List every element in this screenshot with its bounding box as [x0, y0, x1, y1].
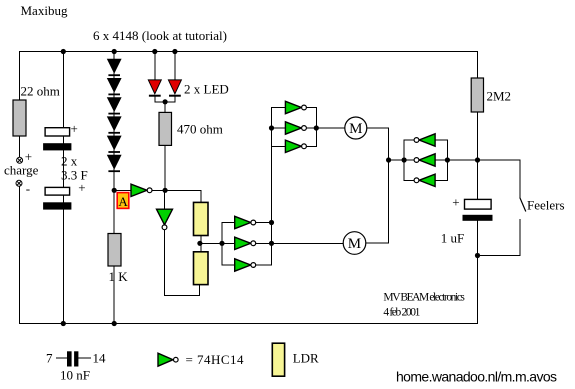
wire group3 right bus [446, 140, 448, 180]
node right rail mid [475, 157, 480, 162]
svg-text:1 uF: 1 uF [441, 231, 464, 246]
capacitor C1 3.3F plate+ [45, 128, 70, 136]
wire node A to inverter U1A input [114, 189, 131, 191]
wire group1 input stub3 [272, 145, 286, 147]
terminal charge - [16, 180, 22, 186]
wire cap2 to bottom rail [62, 210, 64, 324]
svg-text:home.wanadoo.nl/m.m.avos: home.wanadoo.nl/m.m.avos [396, 369, 557, 385]
wire cap branch from top rail [62, 52, 64, 128]
motor M1 [345, 117, 367, 139]
LDR2 [194, 252, 209, 285]
node top rail led1 [152, 49, 157, 54]
wire LDR2 bottom riser [199, 285, 201, 296]
terminal charge + [17, 157, 23, 163]
svg-text:2 x LED: 2 x LED [184, 82, 229, 97]
node A junction [112, 188, 117, 193]
diode D2 [108, 79, 121, 96]
wire group2 to motor2 [272, 242, 344, 244]
diode D3 [108, 98, 121, 115]
capacitor C3 1uF plate+ [465, 199, 492, 209]
node LDR mid [197, 241, 202, 246]
capacitor 10nF legend plate2 [74, 351, 78, 366]
inverter group2 row2 [235, 237, 256, 249]
resistor 470 ohm [159, 112, 172, 145]
diode D6 [108, 155, 121, 172]
wire 1K to bottom rail [113, 266, 115, 324]
wire right rail lower [477, 112, 479, 199]
wire top rail [20, 51, 478, 53]
wire LED2 cathode down [174, 97, 176, 102]
wire down inverter output [164, 230, 166, 296]
svg-text:10 nF: 10 nF [60, 368, 90, 383]
node led join [163, 99, 168, 104]
svg-text:-: - [26, 181, 30, 196]
node bottom rail 1K [112, 321, 117, 326]
wire group1 input stub2 [272, 127, 286, 129]
capacitor 10nF legend plate1 [67, 351, 72, 366]
inverter legend [158, 353, 178, 366]
wire between cap2 plates [62, 195, 64, 202]
node group1 out2 [314, 125, 319, 130]
capacitor C2 3.3F plate+ [45, 187, 70, 195]
wire group1 input stub1 [272, 107, 286, 109]
node group2 out1 [269, 220, 274, 225]
wire feelers drop [519, 160, 521, 197]
inverter group1 row1 [285, 101, 306, 113]
motor M2 [343, 232, 366, 255]
wire feelers return [478, 255, 520, 257]
text LDR legend [272, 343, 284, 376]
wire group3 output stub3 [404, 179, 414, 181]
wire group1 output stub1 [306, 107, 316, 109]
wire LED node to 470 ohm [164, 102, 166, 113]
diode D1 [108, 59, 121, 76]
wire long vertical link [271, 108, 273, 266]
wire common node horizontal [389, 159, 520, 161]
svg-text:14: 14 [93, 351, 107, 366]
capacitor C1 plate- [43, 143, 71, 150]
wire cap1 to cap2 [62, 150, 64, 187]
wire LED join horizontal [155, 101, 175, 103]
wire node B to LDR1 top [165, 189, 201, 191]
inverter U1B down-pointing [157, 209, 173, 230]
wire motor2 right [366, 242, 389, 244]
node cap3 bottom [475, 253, 480, 258]
wire between cap1 plates [62, 136, 64, 143]
svg-text:charge: charge [4, 163, 39, 178]
wire LED2 anode [174, 52, 176, 81]
svg-text:M: M [349, 121, 362, 137]
wire bottom link to LDR2 [165, 295, 200, 297]
node top rail led2 [172, 49, 177, 54]
wire group1 to motor1 [316, 127, 345, 129]
svg-text:4 feb 2001: 4 feb 2001 [383, 307, 420, 319]
diode D4 [108, 117, 121, 134]
wire group2 input stub3 [222, 264, 235, 266]
LDR1 [194, 202, 209, 235]
svg-text:7: 7 [46, 351, 53, 366]
wire group1 output stub2 [306, 127, 316, 129]
wire group1 right bus [315, 108, 317, 147]
wire group2 output stub1 [256, 222, 271, 224]
capacitor C2 plate- [43, 202, 71, 209]
LED2 [168, 80, 181, 97]
inverter group3 row1 [414, 134, 435, 146]
wire motors common vertical [388, 128, 390, 243]
switch feelers arm [520, 198, 526, 212]
wire right rail below cap [477, 220, 479, 324]
node motors common [386, 157, 391, 162]
svg-text:+: + [71, 121, 78, 136]
wire U1A bubble to node B [153, 189, 166, 191]
wire group2 output stub2 [256, 242, 271, 244]
svg-text:1 K: 1 K [109, 269, 129, 284]
wire group2 input stub1 [222, 222, 235, 224]
wire motor1 right [367, 127, 389, 129]
wire group3 left bus [403, 140, 405, 180]
wire LDR node to group2 bus [201, 242, 222, 244]
node bottom rail cap [61, 321, 66, 326]
resistor 2M2 [471, 78, 483, 112]
diode D5 [108, 136, 121, 153]
wire diode chain branch [113, 52, 115, 191]
wire right rail upper [477, 52, 479, 79]
wire node B to down inverter input [164, 190, 166, 209]
inverter group3 row3 [414, 174, 435, 186]
node B junction [163, 188, 168, 193]
wire 10nF lead left [57, 357, 68, 359]
inverter group1 row2 [285, 122, 306, 134]
svg-text:+: + [78, 180, 85, 195]
svg-text:2M2: 2M2 [487, 89, 512, 104]
inverter group3 row2 [414, 154, 435, 166]
node top rail cap [61, 49, 66, 54]
wire LDR1 top drop [200, 190, 202, 202]
op-amp U1A inverter [131, 184, 152, 196]
svg-text:470 ohm: 470 ohm [177, 122, 223, 137]
node group1 in2 [269, 125, 274, 130]
wire 10nF lead right [78, 357, 90, 359]
LED1 [148, 80, 161, 97]
wire group2 output stub3 [256, 264, 271, 266]
wire feelers lower contact [519, 219, 521, 255]
wire LED1 cathode down [154, 97, 156, 102]
wire group3 input stub1 [435, 139, 447, 141]
wire node A to 1K [113, 190, 115, 233]
capacitor C3 plate- [463, 215, 493, 221]
inverter group2 row3 [235, 259, 256, 271]
svg-text:MV BEAM electronics: MV BEAM electronics [383, 292, 465, 304]
svg-text:+: + [452, 194, 459, 209]
svg-text:2 x: 2 x [61, 154, 78, 169]
node A label box [117, 193, 129, 209]
node group3 right [445, 157, 450, 162]
node group3 left [402, 157, 407, 162]
node group2 out2 [269, 241, 274, 246]
inverter group2 row1 [235, 216, 256, 228]
wire group2 input stub2 [222, 242, 235, 244]
wire LDR1 to LDR2 [200, 236, 202, 252]
svg-text:6 x 4148 (look at tutorial): 6 x 4148 (look at tutorial) [93, 28, 227, 43]
svg-text:Feelers: Feelers [527, 198, 565, 213]
wire group2 left bus [221, 223, 223, 266]
wire left rail upper [19, 52, 21, 101]
resistor 22 ohm [13, 100, 26, 136]
svg-text:A: A [118, 194, 128, 209]
wire group1 output stub3 [306, 145, 316, 147]
inverter group1 row3 [285, 140, 306, 152]
wire 470 ohm to node B [164, 145, 166, 190]
wire LED1 anode [154, 52, 156, 81]
svg-text:LDR: LDR [293, 351, 319, 366]
wire group3 input stub3 [435, 179, 447, 181]
node group2 bus feed [219, 241, 224, 246]
resistor 1K [108, 234, 121, 267]
wire group3 output stub1 [404, 139, 414, 141]
svg-text:M: M [348, 236, 361, 252]
svg-text:= 74HC14: = 74HC14 [186, 352, 245, 367]
wire left rail middle [19, 136, 21, 158]
wire bottom rail [20, 323, 478, 325]
svg-text:Maxibug: Maxibug [21, 3, 68, 18]
svg-text:22 ohm: 22 ohm [21, 84, 60, 99]
node top rail diode [112, 49, 117, 54]
wire left rail lower [19, 186, 21, 323]
